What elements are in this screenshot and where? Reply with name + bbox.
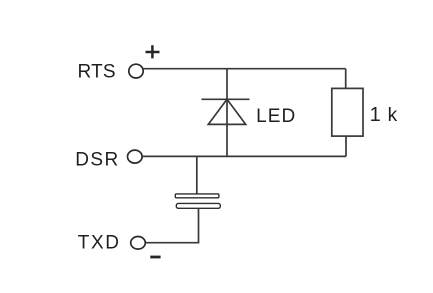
resistor 1k body (332, 88, 363, 136)
wire resistor top stub (345, 69, 347, 89)
capacitor top plate (175, 194, 219, 198)
label 1 k (370, 104, 398, 126)
wire top rail RTS to resistor (143, 68, 345, 70)
terminal TXD circle (131, 237, 146, 250)
wire resistor bottom stub (345, 136, 347, 156)
wire DSR rail (142, 155, 346, 157)
svg-text:TXD: TXD (78, 233, 121, 254)
wire capacitor bottom lead (198, 208, 200, 242)
LED cathode bar (202, 98, 250, 100)
svg-text:LED: LED (256, 106, 296, 127)
svg-text:RTS: RTS (78, 61, 116, 82)
wire LED branch vertical (226, 69, 228, 157)
minus polarity marker (150, 256, 160, 259)
capacitor bottom plate (176, 203, 220, 208)
plus polarity marker (146, 45, 160, 58)
terminal DSR circle (128, 150, 143, 163)
svg-text:k: k (388, 105, 398, 126)
svg-text:DSR: DSR (75, 150, 119, 171)
LED triangle (anode) (208, 99, 245, 124)
wire capacitor top lead (196, 156, 198, 194)
wire TXD lead (145, 242, 200, 244)
terminal RTS circle (129, 64, 143, 78)
svg-text:1: 1 (370, 104, 381, 126)
